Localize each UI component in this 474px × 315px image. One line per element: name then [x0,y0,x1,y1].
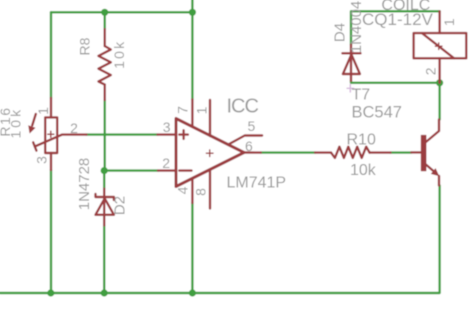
wire left vertical from top rail to R16 pin1 [50,12,52,98]
op-amp pin3 lead [158,133,177,135]
svg-text:2: 2 [423,67,439,75]
svg-text:LM741P: LM741P [227,175,287,192]
wire R16 wiper to op-amp pin3 [87,133,158,135]
wire vertical from top edge through rail to op-amp pin7 [191,0,193,100]
op-amp pin8 lead [209,170,211,209]
wire op-amp output to R10 [261,151,315,153]
node junction top rail / R8 [101,9,108,16]
T7 origin cross marker [347,85,354,93]
op-amp pin5 lead [228,136,262,145]
svg-text:5: 5 [248,118,256,134]
svg-text:R8: R8 [77,37,93,55]
T7 emitter [426,165,437,174]
node junction rail / R16 [47,289,54,296]
op-amp pin7 lead [191,100,193,127]
op-amp pin2 lead [158,169,176,171]
wire top rail to R8 top [103,12,105,29]
wire R10 to T7 base [391,151,412,153]
svg-text:4: 4 [174,186,190,194]
node junction relay pin2 / D4 / collector [436,79,443,86]
relay coil diagonal [422,33,454,58]
wire D4 top to relay pin1 [351,11,440,44]
op-amp U ICC LM741P [158,100,263,209]
T7 base lead [411,151,421,153]
relay coil plus mark [435,43,442,50]
svg-text:D2: D2 [112,196,129,215]
node junction rail / D2 [101,289,108,296]
transistor T7 [411,120,439,186]
resistor R10 [315,147,390,158]
svg-text:CQ1-12V: CQ1-12V [362,10,434,29]
svg-text:T7: T7 [352,86,371,103]
R16 plus mark [48,131,54,137]
wire R16 pin3 down to ground rail [50,170,52,293]
svg-text:6: 6 [245,138,253,154]
node junction top rail / pin7 branch [189,9,196,16]
svg-text:BC547: BC547 [352,104,402,122]
svg-text:2: 2 [70,120,78,136]
relay pin2 lead [438,58,440,83]
op-amp center plus mark [206,150,213,157]
svg-text:1: 1 [194,106,210,114]
svg-text:7: 7 [174,106,190,114]
wire D4 bottom / relay pin2 / collector node [351,81,440,83]
diode D4 [342,45,360,81]
svg-text:10k: 10k [8,107,24,139]
D4 cathode bar [342,52,360,54]
wire op-amp pin4 to ground rail [191,203,193,293]
R16 wiper line [35,135,87,147]
op-amp plus input mark [179,130,188,139]
node junction rail / op-amp pin4 [189,289,196,296]
svg-text:3: 3 [34,156,50,164]
op-amp pin6 output lead [244,151,261,154]
T7 base bar [421,135,426,170]
R16 screwdriver slot [33,142,36,150]
svg-text:10k: 10k [111,40,127,69]
wire inverting node to op-amp pin2 [104,169,158,171]
op-amp pin4 lead [191,179,193,203]
wire R8 bottom to inverting node [103,100,105,171]
svg-text:ICC: ICC [227,96,259,118]
svg-text:1: 1 [441,18,457,26]
resistor R8 [99,29,111,100]
op-amp pin1 lead [209,100,211,136]
relay pin1 lead [438,11,440,33]
wire node to D2 top [103,171,105,189]
svg-text:3: 3 [163,119,171,135]
relay coil K CQ1-12V [414,11,467,83]
wire top supply rail [51,11,192,13]
wire bottom ground rail [0,186,440,294]
svg-text:8: 8 [193,188,209,196]
svg-text:1: 1 [35,107,51,115]
svg-text:1N4728: 1N4728 [76,158,93,211]
relay coil box [414,33,467,58]
svg-text:R10: R10 [347,131,376,148]
svg-text:10k: 10k [350,162,377,179]
T7 emitter arrow [431,168,440,176]
wire D2 bottom to ground rail [103,225,105,293]
wire node down to T7 collector [438,83,440,120]
potentiometer R16 [28,98,86,170]
svg-text:D4: D4 [332,23,349,42]
T7 collector [426,120,439,143]
R16 adjust arrow [32,114,36,126]
svg-text:2: 2 [162,155,170,171]
op-amp minus input mark [179,169,191,171]
zener diode D2 [96,189,114,226]
node junction R8 / D2 / op-amp pin2 [101,167,108,174]
